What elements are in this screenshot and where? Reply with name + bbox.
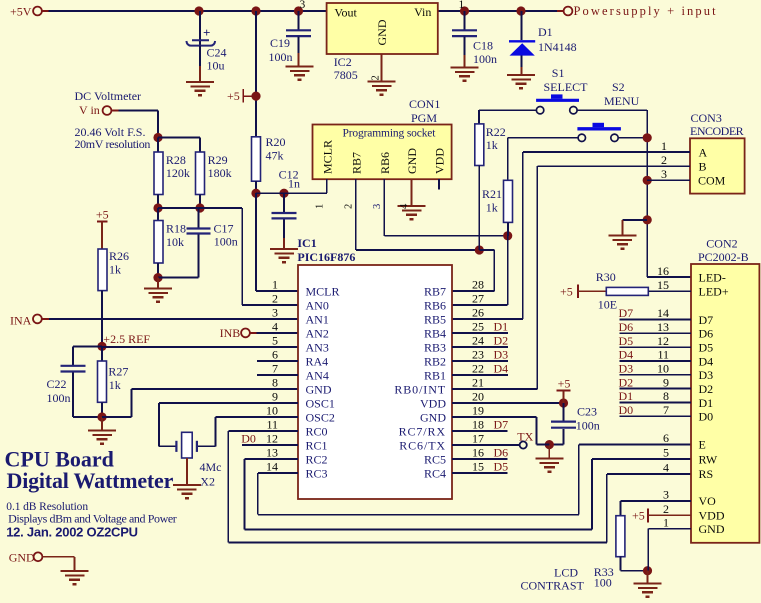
svg-text:A: A <box>699 146 708 160</box>
svg-text:C18: C18 <box>473 39 493 53</box>
svg-text:+: + <box>203 25 210 40</box>
svg-text:10: 10 <box>657 362 669 376</box>
svg-text:PC2002-B: PC2002-B <box>698 250 749 264</box>
svg-text:D4: D4 <box>699 354 714 368</box>
svg-text:1: 1 <box>661 139 667 153</box>
svg-text:17: 17 <box>472 432 484 446</box>
svg-text:AN4: AN4 <box>306 368 329 382</box>
svg-text:SELECT: SELECT <box>544 80 589 94</box>
svg-text:Vin: Vin <box>414 5 431 19</box>
svg-text:1k: 1k <box>486 201 498 215</box>
svg-text:1: 1 <box>663 515 669 529</box>
svg-text:11: 11 <box>266 418 278 432</box>
svg-text:100n: 100n <box>269 50 293 64</box>
svg-text:3: 3 <box>372 204 383 209</box>
svg-text:CON3: CON3 <box>691 111 722 125</box>
svg-text:VDD: VDD <box>699 509 725 523</box>
svg-text:LED-: LED- <box>699 270 726 284</box>
svg-text:12: 12 <box>266 432 278 446</box>
svg-text:180k: 180k <box>208 166 232 180</box>
svg-text:9: 9 <box>663 375 669 389</box>
svg-text:RC4: RC4 <box>424 466 446 480</box>
svg-text:12: 12 <box>657 334 669 348</box>
svg-text:RC3: RC3 <box>306 466 328 480</box>
svg-text:CONTRAST: CONTRAST <box>521 579 585 593</box>
svg-text:AN0: AN0 <box>306 298 329 312</box>
svg-text:D5: D5 <box>619 334 634 348</box>
svg-text:15: 15 <box>472 460 484 474</box>
svg-text:GND: GND <box>375 19 389 45</box>
svg-text:COM: COM <box>698 173 726 187</box>
svg-text:20mV resolution: 20mV resolution <box>75 137 151 151</box>
svg-text:RC5: RC5 <box>424 452 446 466</box>
svg-text:6: 6 <box>663 431 669 445</box>
svg-text:+5: +5 <box>227 89 240 103</box>
svg-text:100: 100 <box>594 576 612 590</box>
svg-text:+5V: +5V <box>10 4 32 18</box>
svg-text:7: 7 <box>272 362 278 376</box>
svg-text:D5: D5 <box>494 460 509 474</box>
svg-text:D2: D2 <box>699 382 714 396</box>
svg-text:MCLR: MCLR <box>306 284 340 298</box>
svg-text:OSC2: OSC2 <box>306 410 335 424</box>
svg-text:RC1: RC1 <box>306 438 328 452</box>
svg-text:R21: R21 <box>482 187 502 201</box>
svg-text:1: 1 <box>315 204 326 209</box>
svg-text:B: B <box>699 159 707 173</box>
svg-text:Digital Wattmeter: Digital Wattmeter <box>7 468 174 493</box>
svg-text:14: 14 <box>657 306 669 320</box>
svg-text:+5: +5 <box>560 285 573 299</box>
svg-text:3: 3 <box>272 306 278 320</box>
svg-text:47k: 47k <box>266 149 284 163</box>
svg-text:+5: +5 <box>632 509 645 523</box>
svg-text:9: 9 <box>272 390 278 404</box>
svg-text:D0: D0 <box>699 410 714 424</box>
svg-text:4Mc: 4Mc <box>200 460 222 474</box>
svg-text:V in: V in <box>79 103 100 117</box>
svg-text:RB4: RB4 <box>424 326 446 340</box>
svg-text:AN2: AN2 <box>306 326 329 340</box>
svg-text:1N4148: 1N4148 <box>538 40 577 54</box>
svg-text:5: 5 <box>663 446 669 460</box>
svg-text:26: 26 <box>472 306 484 320</box>
svg-text:6: 6 <box>272 348 278 362</box>
svg-text:1: 1 <box>272 278 278 292</box>
svg-text:D3: D3 <box>619 362 634 376</box>
svg-text:R22: R22 <box>486 125 506 139</box>
svg-text:IC1: IC1 <box>297 236 316 250</box>
svg-text:1k: 1k <box>109 378 121 392</box>
svg-text:16: 16 <box>657 264 669 278</box>
svg-text:Vout: Vout <box>334 6 357 20</box>
svg-text:RB1: RB1 <box>424 368 446 382</box>
svg-text:13: 13 <box>657 320 669 334</box>
svg-text:8: 8 <box>272 376 278 390</box>
svg-text:+5: +5 <box>558 377 571 391</box>
svg-text:15: 15 <box>657 278 669 292</box>
svg-text:20: 20 <box>472 390 484 404</box>
svg-text:RW: RW <box>699 452 718 466</box>
svg-text:RB7: RB7 <box>424 284 446 298</box>
svg-text:8: 8 <box>663 389 669 403</box>
svg-text:3: 3 <box>661 167 667 181</box>
svg-text:R20: R20 <box>266 135 286 149</box>
svg-text:1n: 1n <box>288 177 300 191</box>
svg-text:2: 2 <box>663 502 669 516</box>
svg-text:2: 2 <box>661 153 667 167</box>
svg-text:D7: D7 <box>619 306 634 320</box>
svg-text:RC0: RC0 <box>306 424 328 438</box>
svg-text:2: 2 <box>371 75 382 80</box>
svg-text:CON2: CON2 <box>706 237 737 251</box>
svg-text:120k: 120k <box>166 166 190 180</box>
svg-text:R27: R27 <box>108 365 128 379</box>
svg-text:LED+: LED+ <box>699 285 729 299</box>
svg-text:22: 22 <box>472 362 484 376</box>
svg-text:TX: TX <box>517 429 533 443</box>
svg-text:C17: C17 <box>214 222 234 236</box>
svg-text:D0: D0 <box>241 432 256 446</box>
svg-text:GND: GND <box>405 148 419 174</box>
svg-text:18: 18 <box>472 418 484 432</box>
svg-text:D1: D1 <box>494 320 509 334</box>
svg-text:INA: INA <box>10 314 32 328</box>
svg-text:100n: 100n <box>214 235 238 249</box>
svg-text:7805: 7805 <box>334 68 358 82</box>
svg-text:4: 4 <box>663 461 669 475</box>
svg-text:RB5: RB5 <box>424 312 446 326</box>
svg-text:D4: D4 <box>494 362 509 376</box>
svg-text:10E: 10E <box>598 298 617 312</box>
svg-text:1: 1 <box>459 0 465 11</box>
svg-text:12. Jan. 2002 OZ2CPU: 12. Jan. 2002 OZ2CPU <box>6 524 138 539</box>
svg-text:RC6/TX: RC6/TX <box>399 438 446 452</box>
svg-text:VDD: VDD <box>420 396 446 410</box>
svg-text:4: 4 <box>399 203 410 209</box>
svg-text:10k: 10k <box>166 235 184 249</box>
svg-text:16: 16 <box>472 446 484 460</box>
svg-text:AN1: AN1 <box>306 312 329 326</box>
svg-text:10: 10 <box>266 404 278 418</box>
svg-text:X2: X2 <box>200 475 215 489</box>
svg-text:13: 13 <box>266 446 278 460</box>
svg-text:GND: GND <box>306 382 332 396</box>
svg-text:C24: C24 <box>207 46 227 60</box>
svg-text:C19: C19 <box>270 36 290 50</box>
svg-text:Powersupply + input: Powersupply + input <box>574 4 718 18</box>
svg-text:D1: D1 <box>619 389 634 403</box>
svg-text:D5: D5 <box>699 341 714 355</box>
svg-text:D3: D3 <box>494 348 509 362</box>
svg-text:D6: D6 <box>619 320 634 334</box>
svg-text:RB0/INT: RB0/INT <box>394 382 446 396</box>
svg-text:PGM: PGM <box>411 111 437 125</box>
svg-text:AN3: AN3 <box>306 340 329 354</box>
svg-text:C22: C22 <box>47 377 67 391</box>
svg-text:INB: INB <box>220 326 241 340</box>
svg-text:VO: VO <box>699 494 717 508</box>
svg-text:C23: C23 <box>577 405 597 419</box>
svg-text:D2: D2 <box>494 334 509 348</box>
svg-text:21: 21 <box>472 376 484 390</box>
svg-text:R30: R30 <box>596 270 616 284</box>
svg-text:RB6: RB6 <box>424 298 446 312</box>
svg-text:100n: 100n <box>576 419 600 433</box>
svg-text:D1: D1 <box>699 396 714 410</box>
svg-text:10u: 10u <box>207 59 225 73</box>
svg-text:R18: R18 <box>166 222 186 236</box>
svg-text:14: 14 <box>266 460 278 474</box>
svg-text:R28: R28 <box>166 153 186 167</box>
svg-text:GND: GND <box>420 410 446 424</box>
svg-text:IC2: IC2 <box>334 55 352 69</box>
svg-text:D6: D6 <box>494 446 509 460</box>
svg-text:11: 11 <box>657 348 669 362</box>
svg-text:+2.5 REF: +2.5 REF <box>103 332 150 346</box>
svg-text:24: 24 <box>472 334 484 348</box>
svg-text:D2: D2 <box>619 375 634 389</box>
svg-text:D7: D7 <box>494 418 509 432</box>
svg-text:CON1: CON1 <box>409 97 440 111</box>
svg-text:RA4: RA4 <box>306 354 329 368</box>
svg-text:+5: +5 <box>96 208 109 222</box>
svg-text:28: 28 <box>472 278 484 292</box>
svg-text:DC Voltmeter: DC Voltmeter <box>75 89 142 103</box>
svg-text:3: 3 <box>300 0 306 11</box>
svg-text:D3: D3 <box>699 368 714 382</box>
svg-text:7: 7 <box>663 403 669 417</box>
svg-text:2: 2 <box>344 204 355 209</box>
svg-text:RB7: RB7 <box>349 152 363 174</box>
svg-text:RB6: RB6 <box>378 152 392 174</box>
svg-text:R26: R26 <box>109 249 129 263</box>
svg-text:100n: 100n <box>473 52 497 66</box>
svg-text:25: 25 <box>472 320 484 334</box>
svg-text:Programming socket: Programming socket <box>343 128 437 140</box>
svg-text:PIC16F876: PIC16F876 <box>297 250 355 264</box>
svg-text:3: 3 <box>663 488 669 502</box>
svg-text:R29: R29 <box>208 153 228 167</box>
svg-text:100n: 100n <box>47 391 71 405</box>
svg-text:RC2: RC2 <box>306 452 328 466</box>
svg-text:4: 4 <box>272 320 278 334</box>
svg-text:OSC1: OSC1 <box>306 396 335 410</box>
svg-text:ENCODER: ENCODER <box>690 124 744 138</box>
svg-text:5: 5 <box>272 334 278 348</box>
svg-text:MCLR: MCLR <box>320 140 334 174</box>
svg-text:MENU: MENU <box>604 94 640 108</box>
svg-text:1k: 1k <box>486 138 498 152</box>
svg-text:27: 27 <box>472 292 484 306</box>
svg-text:LCD: LCD <box>554 566 578 580</box>
svg-text:RB3: RB3 <box>424 340 446 354</box>
svg-text:D4: D4 <box>619 348 634 362</box>
svg-text:GND: GND <box>699 522 725 536</box>
svg-text:D1: D1 <box>538 25 553 39</box>
svg-text:S1: S1 <box>552 66 565 80</box>
svg-text:D0: D0 <box>619 403 634 417</box>
svg-text:S2: S2 <box>612 80 625 94</box>
svg-text:E: E <box>699 438 706 452</box>
svg-text:RB2: RB2 <box>424 354 446 368</box>
svg-text:2: 2 <box>272 292 278 306</box>
svg-text:RS: RS <box>699 467 714 481</box>
svg-text:D6: D6 <box>699 327 714 341</box>
svg-text:1k: 1k <box>109 263 121 277</box>
svg-text:VDD: VDD <box>433 148 447 174</box>
svg-text:19: 19 <box>472 404 484 418</box>
svg-text:RC7/RX: RC7/RX <box>399 424 446 438</box>
svg-text:D7: D7 <box>699 313 714 327</box>
svg-text:23: 23 <box>472 348 484 362</box>
svg-text:GND: GND <box>9 551 35 565</box>
